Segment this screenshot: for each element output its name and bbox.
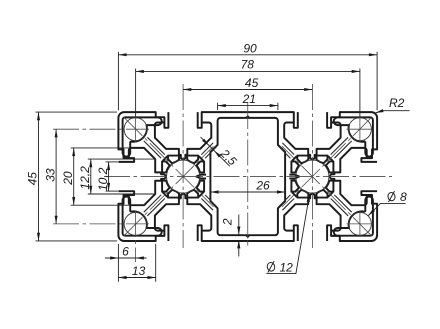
svg-text:6: 6 bbox=[122, 244, 129, 258]
svg-text:13: 13 bbox=[132, 264, 146, 278]
svg-text:45: 45 bbox=[245, 76, 259, 90]
svg-text:90: 90 bbox=[243, 41, 257, 55]
svg-text:21: 21 bbox=[242, 92, 256, 106]
svg-text:20: 20 bbox=[61, 171, 75, 186]
svg-text:26: 26 bbox=[255, 178, 270, 192]
svg-text:R2: R2 bbox=[389, 96, 405, 110]
svg-text:10,2: 10,2 bbox=[96, 167, 110, 191]
svg-text:12,2: 12,2 bbox=[78, 166, 92, 190]
svg-text:45: 45 bbox=[26, 172, 40, 186]
svg-text:12: 12 bbox=[280, 261, 294, 275]
svg-text:33: 33 bbox=[43, 168, 57, 182]
svg-text:8: 8 bbox=[400, 190, 407, 204]
svg-text:78: 78 bbox=[241, 58, 255, 72]
svg-text:2: 2 bbox=[221, 218, 235, 226]
